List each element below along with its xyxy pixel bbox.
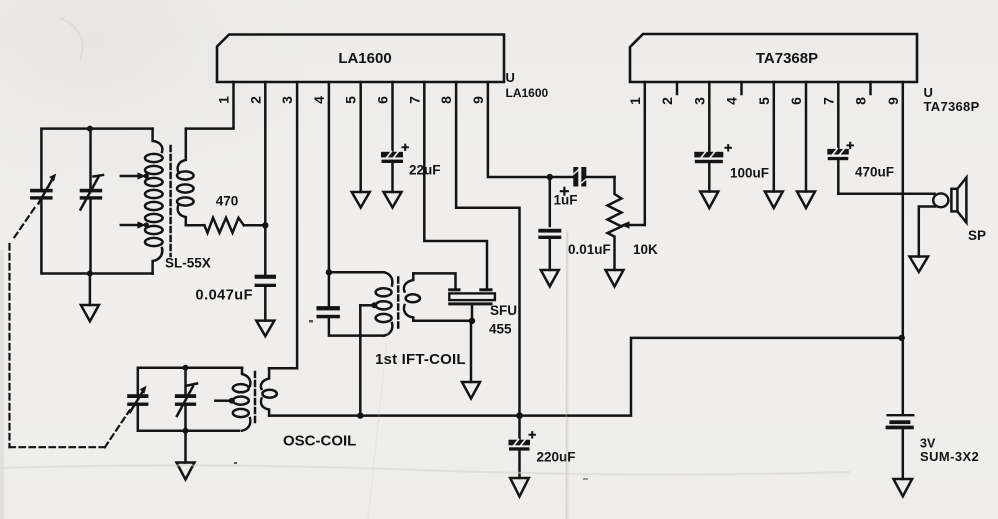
label 3V [920,437,936,451]
svg-text:455: 455 [489,322,512,337]
wire LA1600 pin3 to osc coil secondary [269,82,297,368]
node antenna tank top junction [87,126,93,132]
wire tap arrow 1 (SL-55X) [121,172,149,179]
wire TA7368P pin1 to wiper [644,82,647,225]
svg-text:22uF: 22uF [409,163,441,178]
label SL-55X [165,256,211,271]
capacitor VC1 tuning gang (variable) [30,174,56,204]
wire IFT tank bottom [329,318,384,335]
svg-text:100uF: 100uF [730,166,769,181]
transformer 1st IFT-COIL secondary [404,273,420,320]
ground (0.047uF) [256,321,274,337]
node SFU ground junction [469,318,475,324]
scan specks [234,320,588,480]
svg-text:SFU: SFU [490,303,517,318]
wire IFT secondary top to SFU [413,273,455,288]
svg-text:8: 8 [853,97,869,105]
svg-text:6: 6 [788,97,804,105]
ground (antenna tank) [81,274,99,322]
svg-text:5: 5 [756,97,772,105]
transformer OSC-COIL secondary [261,368,277,415]
node volume junction [547,174,553,180]
wire LA1600 pin7 to SFU [424,82,487,288]
resistor 470 [204,218,265,233]
wire LA1600 pin2 down [264,82,267,275]
capacitor TC1 trimmer [80,129,103,274]
svg-text:LA1600: LA1600 [338,50,391,67]
op-amp U TA7368P (IC body) [630,34,917,82]
pin 7 (TA7368P) [820,97,836,105]
capacitor 22uF (electrolytic) [381,145,408,192]
wire antenna tank top [41,129,152,189]
wire LA1600 pin5 down [359,82,362,192]
svg-text:1: 1 [216,96,232,104]
pin 1 (TA7368P) [627,97,643,105]
wire antenna tank bottom [41,200,152,274]
label SUM-3X2 [920,449,979,464]
wire TA7368P pin5 down [773,82,776,192]
wire IFT tap [360,302,377,415]
svg-text:TA7368P: TA7368P [924,99,980,114]
svg-text:1uF: 1uF [554,193,578,208]
node antenna tank bottom junction [87,271,93,277]
svg-text:0.047uF: 0.047uF [196,288,254,304]
wire dashed tuning gang link [10,208,130,447]
node core (SL-55X dashed) [169,146,172,256]
capacitor VC2 osc tuning gang (variable) [127,386,148,412]
svg-text:2: 2 [659,97,675,105]
wire TA7368P pin6 down [805,82,808,192]
capacitor 220uF (electrolytic) [509,416,535,478]
capacitor 1uF (electrolytic, horizontal) [550,167,615,195]
svg-text:TA7368P: TA7368P [756,50,818,67]
wire bottom rail [269,338,902,416]
wire speaker return [919,207,935,257]
label 220uF [537,450,576,465]
svg-text:470: 470 [216,194,239,209]
svg-text:3: 3 [279,96,295,104]
svg-text:4: 4 [724,97,740,105]
svg-text:4: 4 [311,96,327,104]
svg-text:8: 8 [438,96,454,104]
svg-text:5: 5 [343,96,359,104]
label 470uF [855,165,894,180]
capacitor 470uF (electrolytic) [827,143,853,194]
ceramic filter SFU 455 [448,288,495,321]
pin 5 (LA1600) [343,96,359,104]
label 1st IFT-COIL [375,351,466,368]
paper wrinkle [0,18,850,475]
svg-text:U: U [924,85,933,100]
svg-text:9: 9 [885,97,901,105]
label SFU 455 [489,303,517,337]
capacitor 0.01uF [538,177,561,270]
label 100uF [730,166,769,181]
transformer OSC-COIL primary [233,368,251,431]
paper crease [368,232,567,519]
svg-text:OSC-COIL: OSC-COIL [283,433,356,450]
svg-text:9: 9 [470,96,486,104]
pin 9 (LA1600) [470,96,486,104]
pin 5 (TA7368P) [756,97,772,105]
battery 3V SUM-3X2 [886,414,915,479]
svg-text:3: 3 [691,97,707,105]
svg-text:10K: 10K [633,242,658,257]
speaker SP [933,178,966,223]
transformer 1st IFT-COIL primary [376,272,393,335]
wire LA1600 pin4 down [328,82,331,306]
node rail 220uF junction [516,412,523,419]
ground (battery) [894,479,913,496]
ground (LA pin5) [352,192,370,208]
label 0.01uF [568,242,611,257]
svg-text:470uF: 470uF [855,165,894,180]
wire osc tap [215,398,234,404]
wire TA7368P pin9 to battery [902,82,905,414]
pin 1 (LA1600) [216,96,232,104]
svg-text:LA1600: LA1600 [506,86,549,100]
ground (SFU) [462,321,480,399]
node rail IFT-tap junction [357,412,363,418]
svg-text:U: U [506,70,515,85]
wire IFT secondary bottom to SFU ground node [413,320,472,323]
pin 4 (TA7368P) [724,97,740,105]
wire LA1600 pin8 to bottom rail [456,82,519,416]
label SP [968,228,986,243]
wire 470uF to speaker [838,193,934,196]
ground (10K) [606,270,624,287]
pin 3 (TA7368P) [691,97,707,105]
wire LA1600 pin6 down [391,82,394,152]
node osc tank bottom junction [183,428,189,434]
node core (OSC dashed) [254,372,257,424]
svg-text:6: 6 [375,96,391,104]
node U LA1600 label [506,70,549,100]
svg-text:7: 7 [820,97,836,105]
ground (LA pin6 / 22uF) [384,192,402,208]
ground (TA pin3) [700,192,718,209]
capacitor 100uF (electrolytic) [694,145,731,191]
ground (TA pin5) [765,192,783,209]
capacitor 0.047uF [255,275,276,321]
wire TA7368P pin3 down [708,82,711,152]
svg-text:1st IFT-COIL: 1st IFT-COIL [375,351,466,368]
ground (osc tank) [177,431,195,480]
ground (speaker) [910,257,929,273]
transformer SL-55X secondary [177,129,194,226]
pin 7 (LA1600) [406,96,422,104]
node core (IFT dashed) [397,278,400,332]
label OSC-COIL [283,433,356,450]
svg-text:7: 7 [406,96,422,104]
svg-text:SL-55X: SL-55X [165,256,211,271]
label 10K [633,242,658,257]
wire tap arrow 2 (SL-55X) [121,221,149,228]
pin 3 (LA1600) [279,96,295,104]
label 22uF [409,163,441,178]
wire TA7368P pin7 down [837,82,840,149]
ground (0.01uF) [541,270,559,287]
svg-text:SUM-3X2: SUM-3X2 [920,449,979,464]
pin 8 (TA7368P) [853,97,869,105]
label 1uF [554,193,578,208]
wire secondary to resistor [186,224,205,227]
capacitor IFT tank [317,306,340,318]
wire LA1600 pin1 to antenna coil secondary [186,82,234,129]
node rail battery junction [899,335,905,341]
pin 2 (LA1600) [247,96,263,104]
svg-text:220uF: 220uF [537,450,576,465]
svg-text:SP: SP [968,228,986,243]
op-amp U LA1600 (IC body) [217,35,504,83]
node resistor-pin2 junction [262,222,268,228]
pin 9 (TA7368P) [885,97,901,105]
node IFT top junction [326,269,332,275]
pin 6 (LA1600) [375,96,391,104]
ground (TA pin6) [797,192,815,209]
wire LA1600 pin9 to volume node [488,82,550,177]
node U TA7368P label [924,85,980,114]
label 0.047uF [196,288,254,304]
wire IFT tank top [329,271,384,274]
pin 2 (TA7368P) [659,97,675,105]
wire osc tank bottom [138,406,239,431]
wire TA7368P pin2 stub [676,82,679,94]
potentiometer 10K [608,177,645,270]
wire TA7368P pin4 stub [740,82,743,94]
capacitor TC2 osc trimmer [175,368,197,431]
svg-text:2: 2 [247,96,263,104]
ground (220uF) [510,478,529,497]
svg-text:1: 1 [627,97,643,105]
transformer SL-55X antenna coil primary [145,129,163,274]
wire TA7368P pin8 stub [869,82,872,94]
wire osc tank top [138,368,242,394]
pin 6 (TA7368P) [788,97,804,105]
pin 4 (LA1600) [311,96,327,104]
label 470 [216,194,239,209]
pin 8 (LA1600) [438,96,454,104]
svg-text:0.01uF: 0.01uF [568,242,611,257]
node osc tank top junction [183,365,189,371]
